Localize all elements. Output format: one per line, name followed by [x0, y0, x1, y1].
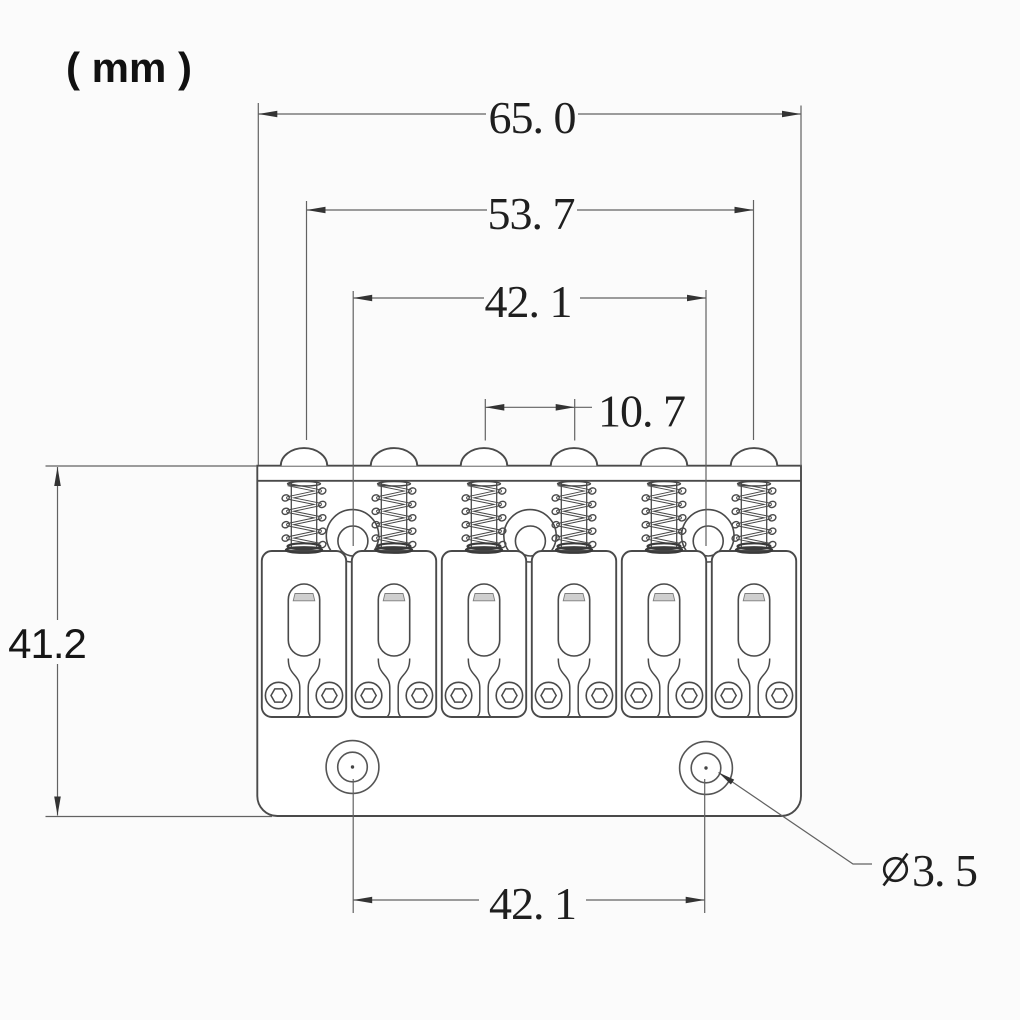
saddle 5 with string slot and height screws: [622, 551, 706, 717]
intonation screw boss circle 2: [504, 510, 556, 562]
svg-text:65. 0: 65. 0: [489, 92, 576, 143]
intonation spring 5: [641, 482, 687, 553]
svg-text:10. 7: 10. 7: [598, 385, 685, 436]
intonation screw boss circle 1: [326, 510, 378, 562]
flange screw dome head 4: [551, 448, 597, 466]
flange screw dome head 2: [371, 448, 417, 466]
flange screw dome head 5: [641, 448, 687, 466]
leader and label diameter 3.5 mounting hole: [719, 773, 978, 897]
saddle 1 with string slot and height screws: [262, 551, 346, 717]
dimension 42.1 boss spacing: [353, 276, 706, 546]
saddle 2 with string slot and height screws: [352, 551, 436, 717]
intonation spring 4: [551, 482, 597, 553]
mounting hole right: [680, 742, 733, 795]
mounting hole left: [326, 741, 379, 794]
bridge plate outline: [257, 466, 801, 816]
svg-text:( mm ): ( mm ): [66, 44, 192, 91]
intonation screw boss circle 3: [682, 510, 734, 562]
svg-text:53. 7: 53. 7: [488, 188, 575, 239]
saddle 6 with string slot and height screws: [712, 551, 796, 717]
plate mounting-flange line: [257, 480, 801, 482]
dimension 42.1 mounting hole spacing: [353, 779, 705, 929]
svg-text:42. 1: 42. 1: [489, 878, 576, 929]
flange screw dome head 1: [281, 448, 327, 466]
dimension 65.0 overall width: [258, 92, 801, 466]
dimension 41.2 plate depth: [8, 466, 272, 817]
flange screw dome head 3: [461, 448, 507, 466]
svg-text:42. 1: 42. 1: [485, 276, 572, 327]
intonation spring 6: [731, 482, 777, 553]
svg-text:41.2: 41.2: [8, 620, 86, 667]
intonation spring 2: [371, 482, 417, 553]
intonation spring 1: [281, 482, 327, 553]
saddle 3 with string slot and height screws: [442, 551, 526, 717]
saddle 4 with string slot and height screws: [532, 551, 616, 717]
intonation spring 3: [461, 482, 507, 553]
dimension 53.7 outer screw spacing: [307, 188, 754, 440]
svg-text:3. 5: 3. 5: [912, 845, 977, 896]
flange screw dome head 6: [731, 448, 777, 466]
dimension 10.7 string spacing: [485, 385, 685, 440]
